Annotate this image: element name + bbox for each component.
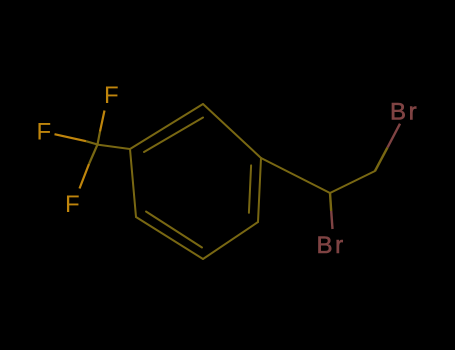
wire ring edge T-TR	[203, 104, 261, 158]
bond C0-F bottom (C half)	[89, 145, 98, 165]
bond C1-Br bottom (C half)	[330, 193, 331, 211]
bond C2-Br top (Br half)	[388, 124, 401, 148]
wire aromatic inner line L-T	[144, 118, 203, 153]
bond C2-Br top (C half)	[375, 148, 388, 172]
bond ring V_L to CF3 carbon C0	[97, 145, 131, 150]
bond C1-Br bottom (Br half)	[331, 211, 332, 229]
wire ring edge TR-BR	[258, 158, 261, 222]
bond C0-F top (F half)	[100, 111, 105, 132]
svg-text:F: F	[65, 191, 80, 218]
wire ring edge BL-L	[130, 149, 136, 217]
wire ring edge L-T	[130, 104, 203, 149]
benzene ring	[130, 104, 261, 259]
bond C0-F top (C half)	[98, 132, 101, 145]
svg-text:F: F	[37, 119, 52, 146]
wire aromatic inner line B-BL	[146, 212, 202, 248]
bond ring V_TR to C1 (CHBr)	[261, 158, 330, 193]
wire ring edge B-BL	[136, 217, 203, 259]
wire ring edge BR-B	[203, 222, 258, 259]
bond C0-F left (C half)	[86, 141, 98, 144]
svg-text:Br: Br	[317, 232, 346, 259]
bond C0-F bottom (F half)	[80, 164, 90, 189]
svg-text:F: F	[104, 82, 119, 109]
bond C1-C2	[330, 171, 375, 193]
wire aromatic inner line TR-BR	[249, 165, 251, 212]
svg-text:Br: Br	[390, 99, 419, 126]
bond C0-F left (F half)	[55, 134, 87, 141]
